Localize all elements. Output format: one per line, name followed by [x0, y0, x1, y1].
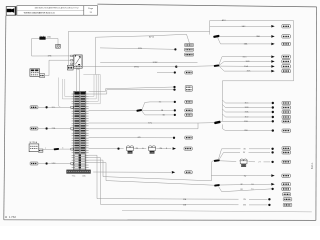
- svg-text:77-1: 77-1: [72, 175, 76, 177]
- svg-text:1 7X2: 1 7X2: [9, 215, 16, 219]
- svg-text:3GC: 3GC: [243, 56, 248, 58]
- svg-text:3PE: 3PE: [138, 48, 143, 50]
- svg-text:3DD: 3DD: [245, 117, 249, 119]
- svg-text:Page: Page: [88, 8, 94, 10]
- svg-text:a: a: [45, 148, 46, 150]
- svg-text:AP10: AP10: [149, 35, 155, 38]
- svg-text:3VQ: 3VQ: [148, 122, 152, 124]
- svg-text:3AC: 3AC: [242, 25, 246, 28]
- svg-text:3DC: 3DC: [245, 103, 249, 105]
- svg-text:3FB1: 3FB1: [134, 67, 140, 69]
- svg-text:2M: 2M: [159, 148, 162, 150]
- svg-text:WIRING DIAGRAM NR 8200 141: WIRING DIAGRAM NR 8200 141: [24, 12, 56, 15]
- svg-text:18B INJECTION ANTIPERCOLATION: 18B INJECTION ANTIPERCOLATION CIRCUIT 7X…: [34, 7, 78, 10]
- svg-text:3M: 3M: [243, 205, 246, 207]
- svg-text:b: b: [62, 147, 63, 149]
- svg-text:M.TPS A: M.TPS A: [30, 141, 38, 144]
- svg-text:81C-1: 81C-1: [311, 162, 314, 169]
- svg-text:237: 237: [76, 69, 79, 71]
